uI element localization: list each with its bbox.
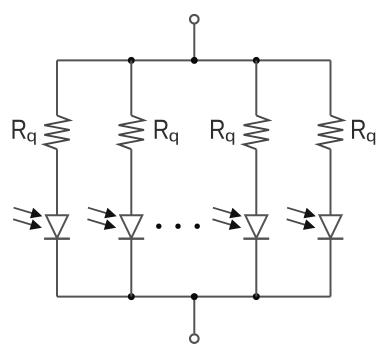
label Rq for resistor R1 <box>13 120 36 145</box>
ellipsis (continuation dots) <box>156 224 200 229</box>
junction node J1 <box>128 57 135 64</box>
photodiode D4 cathode bar <box>318 238 344 240</box>
wire: branch 3 photodiode to bottom rail <box>255 239 257 297</box>
junction node J3 <box>253 57 260 64</box>
photodiode D2 light arrow 2 <box>87 219 116 230</box>
photodiode D2 triangle <box>120 215 142 238</box>
resistor R2 (Rq) <box>119 116 144 150</box>
label Rq for resistor R4 <box>352 120 375 145</box>
photodiode D4 light arrow 2 <box>287 219 316 230</box>
photodiode D4 triangle <box>320 215 342 238</box>
photodiode D1 cathode bar <box>44 238 70 240</box>
junction node J5 <box>191 293 198 300</box>
label Rq for resistor R3 <box>211 120 234 145</box>
wire: branch 2 top rail to resistor <box>130 60 132 115</box>
junction node J6 <box>253 293 260 300</box>
wire: branch 1 top rail to resistor <box>56 60 58 115</box>
junction node J2 <box>191 57 198 64</box>
terminal T1 (top, open circle) <box>190 15 199 24</box>
photodiode D2 cathode bar <box>118 238 144 240</box>
photodiode D1 triangle <box>46 215 68 238</box>
photodiode D3 light arrow 1 <box>213 208 242 219</box>
photodiode D1 light arrow 1 <box>14 208 43 219</box>
resistor R4 (Rq) <box>318 116 343 150</box>
wire: branch 3 resistor to photodiode <box>255 149 257 215</box>
wire: branch 4 photodiode to bottom rail <box>330 239 332 297</box>
photodiode D3 light arrow 2 <box>212 219 241 230</box>
junction node J4 <box>128 293 135 300</box>
resistor R3 (Rq) <box>244 116 269 150</box>
photodiode D3 triangle <box>245 215 267 238</box>
wire: branch 2 photodiode to bottom rail <box>130 239 132 297</box>
terminal T2 (bottom, open circle) <box>190 334 199 343</box>
label Rq for resistor R2 <box>155 120 178 145</box>
resistor R1 (Rq) <box>44 116 69 150</box>
wire: top rail <box>57 59 331 61</box>
wire: top terminal to top rail <box>193 25 195 61</box>
photodiode D3 cathode bar <box>243 238 269 240</box>
wire: branch 4 resistor to photodiode <box>330 149 332 215</box>
photodiode D2 light arrow 1 <box>88 208 117 219</box>
photodiode D4 light arrow 1 <box>287 208 316 219</box>
wire: branch 2 resistor to photodiode <box>130 149 132 215</box>
wire: branch 3 top rail to resistor <box>255 60 257 115</box>
wire: branch 4 top rail to resistor <box>330 60 332 115</box>
wire: branch 1 photodiode to bottom rail <box>56 239 58 297</box>
wire: bottom rail <box>57 296 331 298</box>
wire: bottom rail to bottom terminal <box>193 297 195 334</box>
photodiode D1 light arrow 2 <box>13 219 42 230</box>
wire: branch 1 resistor to photodiode <box>56 149 58 215</box>
